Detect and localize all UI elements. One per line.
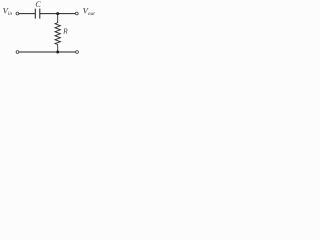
wire top-right bbox=[40, 13, 76, 15]
svg-text:R: R bbox=[62, 27, 68, 36]
terminal bottom-left bbox=[16, 51, 19, 54]
wire top-left bbox=[19, 13, 35, 15]
junction node top bbox=[56, 12, 59, 15]
terminal bottom-right bbox=[76, 51, 79, 54]
resistor R bbox=[55, 14, 60, 52]
junction node bottom bbox=[56, 51, 59, 54]
terminal Vout bbox=[75, 12, 78, 15]
terminal Vin bbox=[16, 12, 19, 15]
capacitor C bbox=[35, 9, 40, 19]
wire bottom bbox=[19, 51, 76, 53]
svg-text:C: C bbox=[35, 0, 41, 9]
